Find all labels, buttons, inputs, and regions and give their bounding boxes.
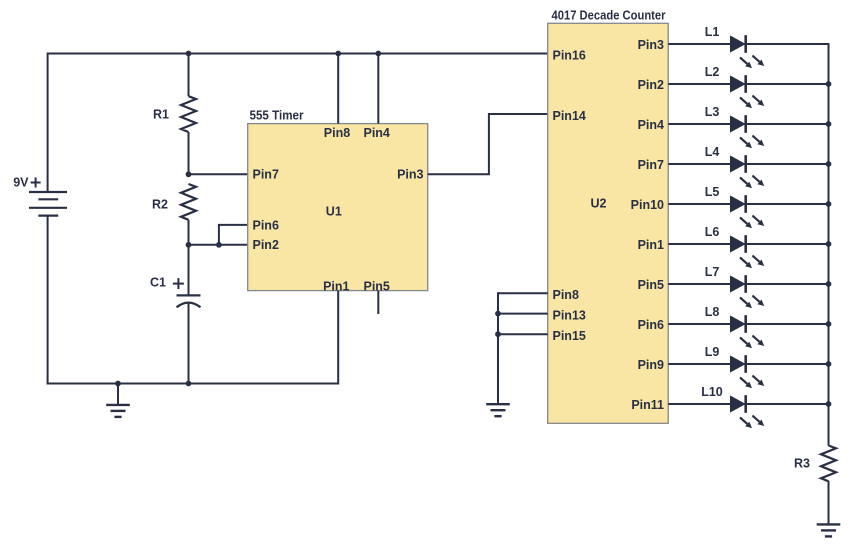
LED L10 xyxy=(730,395,764,428)
wire U2 to L2 xyxy=(668,83,828,85)
node Pin7 junction xyxy=(186,171,192,177)
wire C1 top lead xyxy=(188,245,190,295)
svg-text:Pin6: Pin6 xyxy=(253,219,279,233)
svg-text:Pin15: Pin15 xyxy=(553,329,586,343)
svg-text:Pin1: Pin1 xyxy=(638,238,664,252)
wire U2 Pin13 to gnd rail xyxy=(498,313,548,315)
capacitor C1 plus sign xyxy=(173,278,184,289)
pin Pin14 label (U2) xyxy=(553,109,586,123)
svg-text:Pin4: Pin4 xyxy=(363,126,389,140)
svg-text:L7: L7 xyxy=(705,265,720,279)
pin Pin7 label (U1) xyxy=(253,168,279,182)
wire 555 Pin3 to U2 Pin14 xyxy=(428,114,548,174)
svg-text:R3: R3 xyxy=(794,456,810,470)
pin Pin8 label (U2) xyxy=(553,288,579,302)
svg-text:Pin11: Pin11 xyxy=(631,398,664,412)
label L1 xyxy=(705,25,720,39)
node rail / L3 xyxy=(826,121,832,127)
node rail / L7 xyxy=(826,281,832,287)
label U2 xyxy=(591,196,607,210)
wire U2 Pin15 to gnd rail xyxy=(498,333,548,335)
resistor R2 xyxy=(181,184,196,220)
node top rail / Pin4 junction xyxy=(375,51,381,57)
svg-text:9V: 9V xyxy=(13,175,29,189)
wire U2 Pin8 to gnd rail xyxy=(498,292,548,294)
node rail / L4 xyxy=(826,161,832,167)
svg-text:Pin3: Pin3 xyxy=(638,38,664,52)
svg-text:Pin4: Pin4 xyxy=(638,118,664,132)
svg-text:Pin14: Pin14 xyxy=(553,109,586,123)
svg-text:L9: L9 xyxy=(705,345,720,359)
svg-text:R1: R1 xyxy=(153,107,169,121)
pin Pin15 label (U2) xyxy=(553,329,586,343)
battery B1 9V xyxy=(29,192,67,216)
wire R1 bottom lead xyxy=(188,132,190,174)
svg-text:Pin2: Pin2 xyxy=(253,238,279,252)
label 4017 Decade Counter xyxy=(552,9,666,23)
wire C1 bottom lead xyxy=(188,304,190,384)
node gnd rail / Pin15 xyxy=(495,331,501,337)
pin Pin6 label (U2 right) xyxy=(638,318,664,332)
LED L6 xyxy=(730,235,764,268)
capacitor C1 xyxy=(177,295,201,307)
wire U2 to L5 xyxy=(668,203,828,205)
wire Pin8 stub xyxy=(337,54,339,124)
wire gnd rail vertical xyxy=(497,292,499,404)
pin Pin11 label (U2 right) xyxy=(631,398,664,412)
label L6 xyxy=(705,225,720,239)
label 555 Timer xyxy=(250,109,304,123)
pin Pin3 label (U1) xyxy=(397,168,423,182)
wire U2 to L9 xyxy=(668,363,828,365)
node Pin2 junction xyxy=(186,242,192,248)
pin Pin3 label (U2 right) xyxy=(638,38,664,52)
svg-text:4017 Decade Counter: 4017 Decade Counter xyxy=(552,9,666,23)
svg-text:L4: L4 xyxy=(705,145,720,159)
svg-text:Pin9: Pin9 xyxy=(638,358,664,372)
resistor R1 xyxy=(181,96,196,132)
wire R3 bottom lead xyxy=(828,481,830,524)
svg-text:Pin10: Pin10 xyxy=(631,198,664,212)
svg-text:Pin7: Pin7 xyxy=(253,168,279,182)
node top rail / R1 junction xyxy=(186,51,192,57)
svg-text:U2: U2 xyxy=(591,196,607,210)
wire U2 to L1 xyxy=(668,43,828,45)
svg-text:C1: C1 xyxy=(150,275,166,289)
ground GND1 xyxy=(106,405,130,417)
node rail / L8 xyxy=(826,321,832,327)
label R3 xyxy=(794,456,810,470)
svg-text:L6: L6 xyxy=(705,225,720,239)
ground GND3 xyxy=(817,524,841,536)
pin Pin13 label (U2) xyxy=(553,309,586,323)
label C1 xyxy=(150,275,166,289)
pin Pin2 label (U1) xyxy=(253,238,279,252)
svg-text:Pin13: Pin13 xyxy=(553,309,586,323)
LED L2 xyxy=(730,75,764,108)
svg-text:Pin6: Pin6 xyxy=(638,318,664,332)
wire left rail lower (battery -) xyxy=(47,216,49,385)
svg-text:Pin7: Pin7 xyxy=(638,158,664,172)
label L7 xyxy=(705,265,720,279)
LED L8 xyxy=(730,315,764,348)
wire U2 to L3 xyxy=(668,123,828,125)
node ground bus / gnd stub xyxy=(115,381,121,387)
label L10 xyxy=(701,385,723,399)
pin Pin10 label (U2 right) xyxy=(631,198,664,212)
wire R2 bottom lead xyxy=(188,220,190,245)
LED L9 xyxy=(730,355,764,388)
pin Pin4 label (U1) xyxy=(363,126,389,140)
node rail / L2 xyxy=(826,81,832,87)
svg-text:L1: L1 xyxy=(705,25,720,39)
svg-text:L3: L3 xyxy=(705,105,720,119)
wire Pin1 to ground bus xyxy=(337,291,339,385)
op-amp U1 555 timer body xyxy=(248,124,428,291)
svg-text:L2: L2 xyxy=(705,65,720,79)
pin Pin2 label (U2 right) xyxy=(638,78,664,92)
node gnd rail / Pin13 xyxy=(495,311,501,317)
label R1 xyxy=(153,107,169,121)
svg-text:L5: L5 xyxy=(705,185,720,199)
svg-text:L10: L10 xyxy=(701,385,723,399)
resistor R3 xyxy=(821,446,836,482)
label L3 xyxy=(705,105,720,119)
pin Pin1 label (U1) xyxy=(323,279,349,293)
svg-text:Pin8: Pin8 xyxy=(324,126,350,140)
label L4 xyxy=(705,145,720,159)
pin Pin16 label (U2) xyxy=(553,49,586,63)
pin Pin1 label (U2 right) xyxy=(638,238,664,252)
svg-text:Pin1: Pin1 xyxy=(323,279,349,293)
wire bottom ground bus xyxy=(47,383,339,385)
wire U2 to L7 xyxy=(668,283,828,285)
wire Pin4 stub xyxy=(377,54,379,124)
wire R1 top lead xyxy=(188,54,190,97)
wire Pin5 stub xyxy=(377,291,379,314)
pin Pin5 label (U2 right) xyxy=(638,278,664,292)
svg-text:Pin5: Pin5 xyxy=(363,279,389,293)
LED L7 xyxy=(730,275,764,308)
label L2 xyxy=(705,65,720,79)
label L9 xyxy=(705,345,720,359)
pin Pin5 label (U1) xyxy=(363,279,389,293)
label R2 xyxy=(152,197,168,211)
svg-text:Pin3: Pin3 xyxy=(397,168,423,182)
LED L5 xyxy=(730,195,764,228)
node rail / L10 xyxy=(826,401,832,407)
pin Pin6 label (U1) xyxy=(253,219,279,233)
node ground bus / C1 junction xyxy=(186,381,192,387)
label 9V xyxy=(13,175,29,189)
pin Pin7 label (U2 right) xyxy=(638,158,664,172)
wire top power rail xyxy=(48,53,548,55)
pin Pin9 label (U2 right) xyxy=(638,358,664,372)
svg-text:L8: L8 xyxy=(705,305,720,319)
pin Pin4 label (U2 right) xyxy=(638,118,664,132)
node rail / L9 xyxy=(826,361,832,367)
op-amp U2 4017 decade counter body xyxy=(548,23,669,423)
svg-text:Pin16: Pin16 xyxy=(553,49,586,63)
ground GND2 xyxy=(486,404,510,416)
pin Pin8 label (U1) xyxy=(324,126,350,140)
label U1 xyxy=(326,204,342,218)
node Pin6/Pin2 tie xyxy=(216,242,222,248)
wire left rail upper (battery +) xyxy=(47,53,49,193)
label L8 xyxy=(705,305,720,319)
wire right LED rail xyxy=(828,43,830,446)
wire U2 to L10 xyxy=(668,403,828,405)
svg-text:Pin5: Pin5 xyxy=(638,278,664,292)
LED L3 xyxy=(730,115,764,148)
svg-text:R2: R2 xyxy=(152,197,168,211)
wire to 555 Pin2 xyxy=(189,244,248,246)
wire ground stub xyxy=(117,384,119,405)
node rail / L6 xyxy=(826,241,832,247)
LED L1 xyxy=(730,35,764,68)
wire U2 to L4 xyxy=(668,163,828,165)
node top rail / Pin8 junction xyxy=(335,51,341,57)
wire U2 to L6 xyxy=(668,243,828,245)
battery plus sign xyxy=(31,178,41,188)
node rail / L5 xyxy=(826,201,832,207)
wire to 555 Pin7 xyxy=(189,173,248,175)
wire U2 to L8 xyxy=(668,323,828,325)
svg-text:U1: U1 xyxy=(326,204,342,218)
label L5 xyxy=(705,185,720,199)
svg-text:Pin8: Pin8 xyxy=(553,288,579,302)
LED L4 xyxy=(730,155,764,188)
wire 555 Pin6 to Pin2 net xyxy=(219,225,248,245)
svg-text:Pin2: Pin2 xyxy=(638,78,664,92)
svg-text:555 Timer: 555 Timer xyxy=(250,109,304,123)
